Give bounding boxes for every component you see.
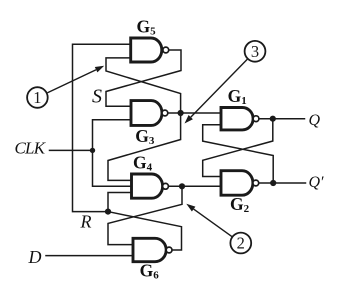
wire CLK input line	[50, 149, 93, 151]
svg-text:R: R	[80, 212, 92, 232]
NAND gate G3	[131, 101, 168, 126]
wire from G3 output right to G1 upper input	[168, 112, 221, 114]
svg-text:2: 2	[237, 234, 245, 253]
svg-text:G2: G2	[230, 194, 250, 215]
svg-text:D: D	[28, 247, 42, 267]
node G4 output junction	[179, 183, 185, 189]
svg-text:Q: Q	[309, 112, 321, 129]
wire CLK branch up to G3 lower input	[93, 120, 132, 151]
callout arrow 2	[186, 204, 232, 237]
callout circle 3	[245, 41, 266, 62]
svg-text:CLK: CLK	[15, 139, 47, 158]
wire Q output line	[259, 118, 305, 120]
NAND gate G1	[221, 108, 259, 130]
NAND gate G5	[131, 38, 169, 62]
wire CLK branch down to G4 middle input	[93, 150, 132, 186]
svg-text:1: 1	[33, 88, 41, 107]
wire from G6 output up across to node R	[108, 212, 182, 250]
node Q' junction	[270, 180, 276, 186]
wire D input line	[46, 255, 133, 257]
node S latch output junction	[178, 110, 184, 116]
NAND gate G2	[221, 171, 259, 196]
wire from G3 output up across to G5 lower input	[106, 58, 181, 113]
callout arrow 1	[48, 66, 105, 93]
NAND gate G4 (3-input)	[132, 174, 169, 198]
wire from node R left and up to G5 upper input	[73, 44, 131, 211]
wire from G4 output right to G2 lower input	[169, 185, 222, 187]
node Q junction	[270, 116, 276, 122]
wire from G5 output down across to node S and G3 upper input	[106, 50, 181, 106]
wire from G3 output down to G4 upper input	[108, 113, 181, 180]
node R junction	[105, 209, 111, 215]
wire from node R up to G4 lower input	[108, 193, 132, 212]
svg-text:G6: G6	[140, 261, 160, 282]
NAND gate G6	[133, 238, 172, 261]
svg-text:S: S	[92, 85, 102, 107]
wire Q' feedback up across to G1 lower input	[203, 125, 274, 183]
wire from G4 output down across to G6 upper input	[108, 186, 182, 244]
svg-text:G3: G3	[135, 126, 155, 147]
svg-text:G4: G4	[133, 152, 153, 173]
svg-text:Q′: Q′	[309, 174, 325, 191]
callout circle 1	[27, 87, 48, 108]
svg-text:3: 3	[251, 42, 259, 61]
callout arrow 3	[185, 59, 248, 123]
svg-text:G1: G1	[228, 86, 247, 107]
node CLK junction	[90, 148, 95, 153]
wire Q feedback down across to G2 upper input	[203, 119, 273, 177]
callout circle 2	[230, 233, 251, 254]
svg-text:G5: G5	[137, 17, 157, 38]
wire Q' output line	[259, 182, 306, 184]
